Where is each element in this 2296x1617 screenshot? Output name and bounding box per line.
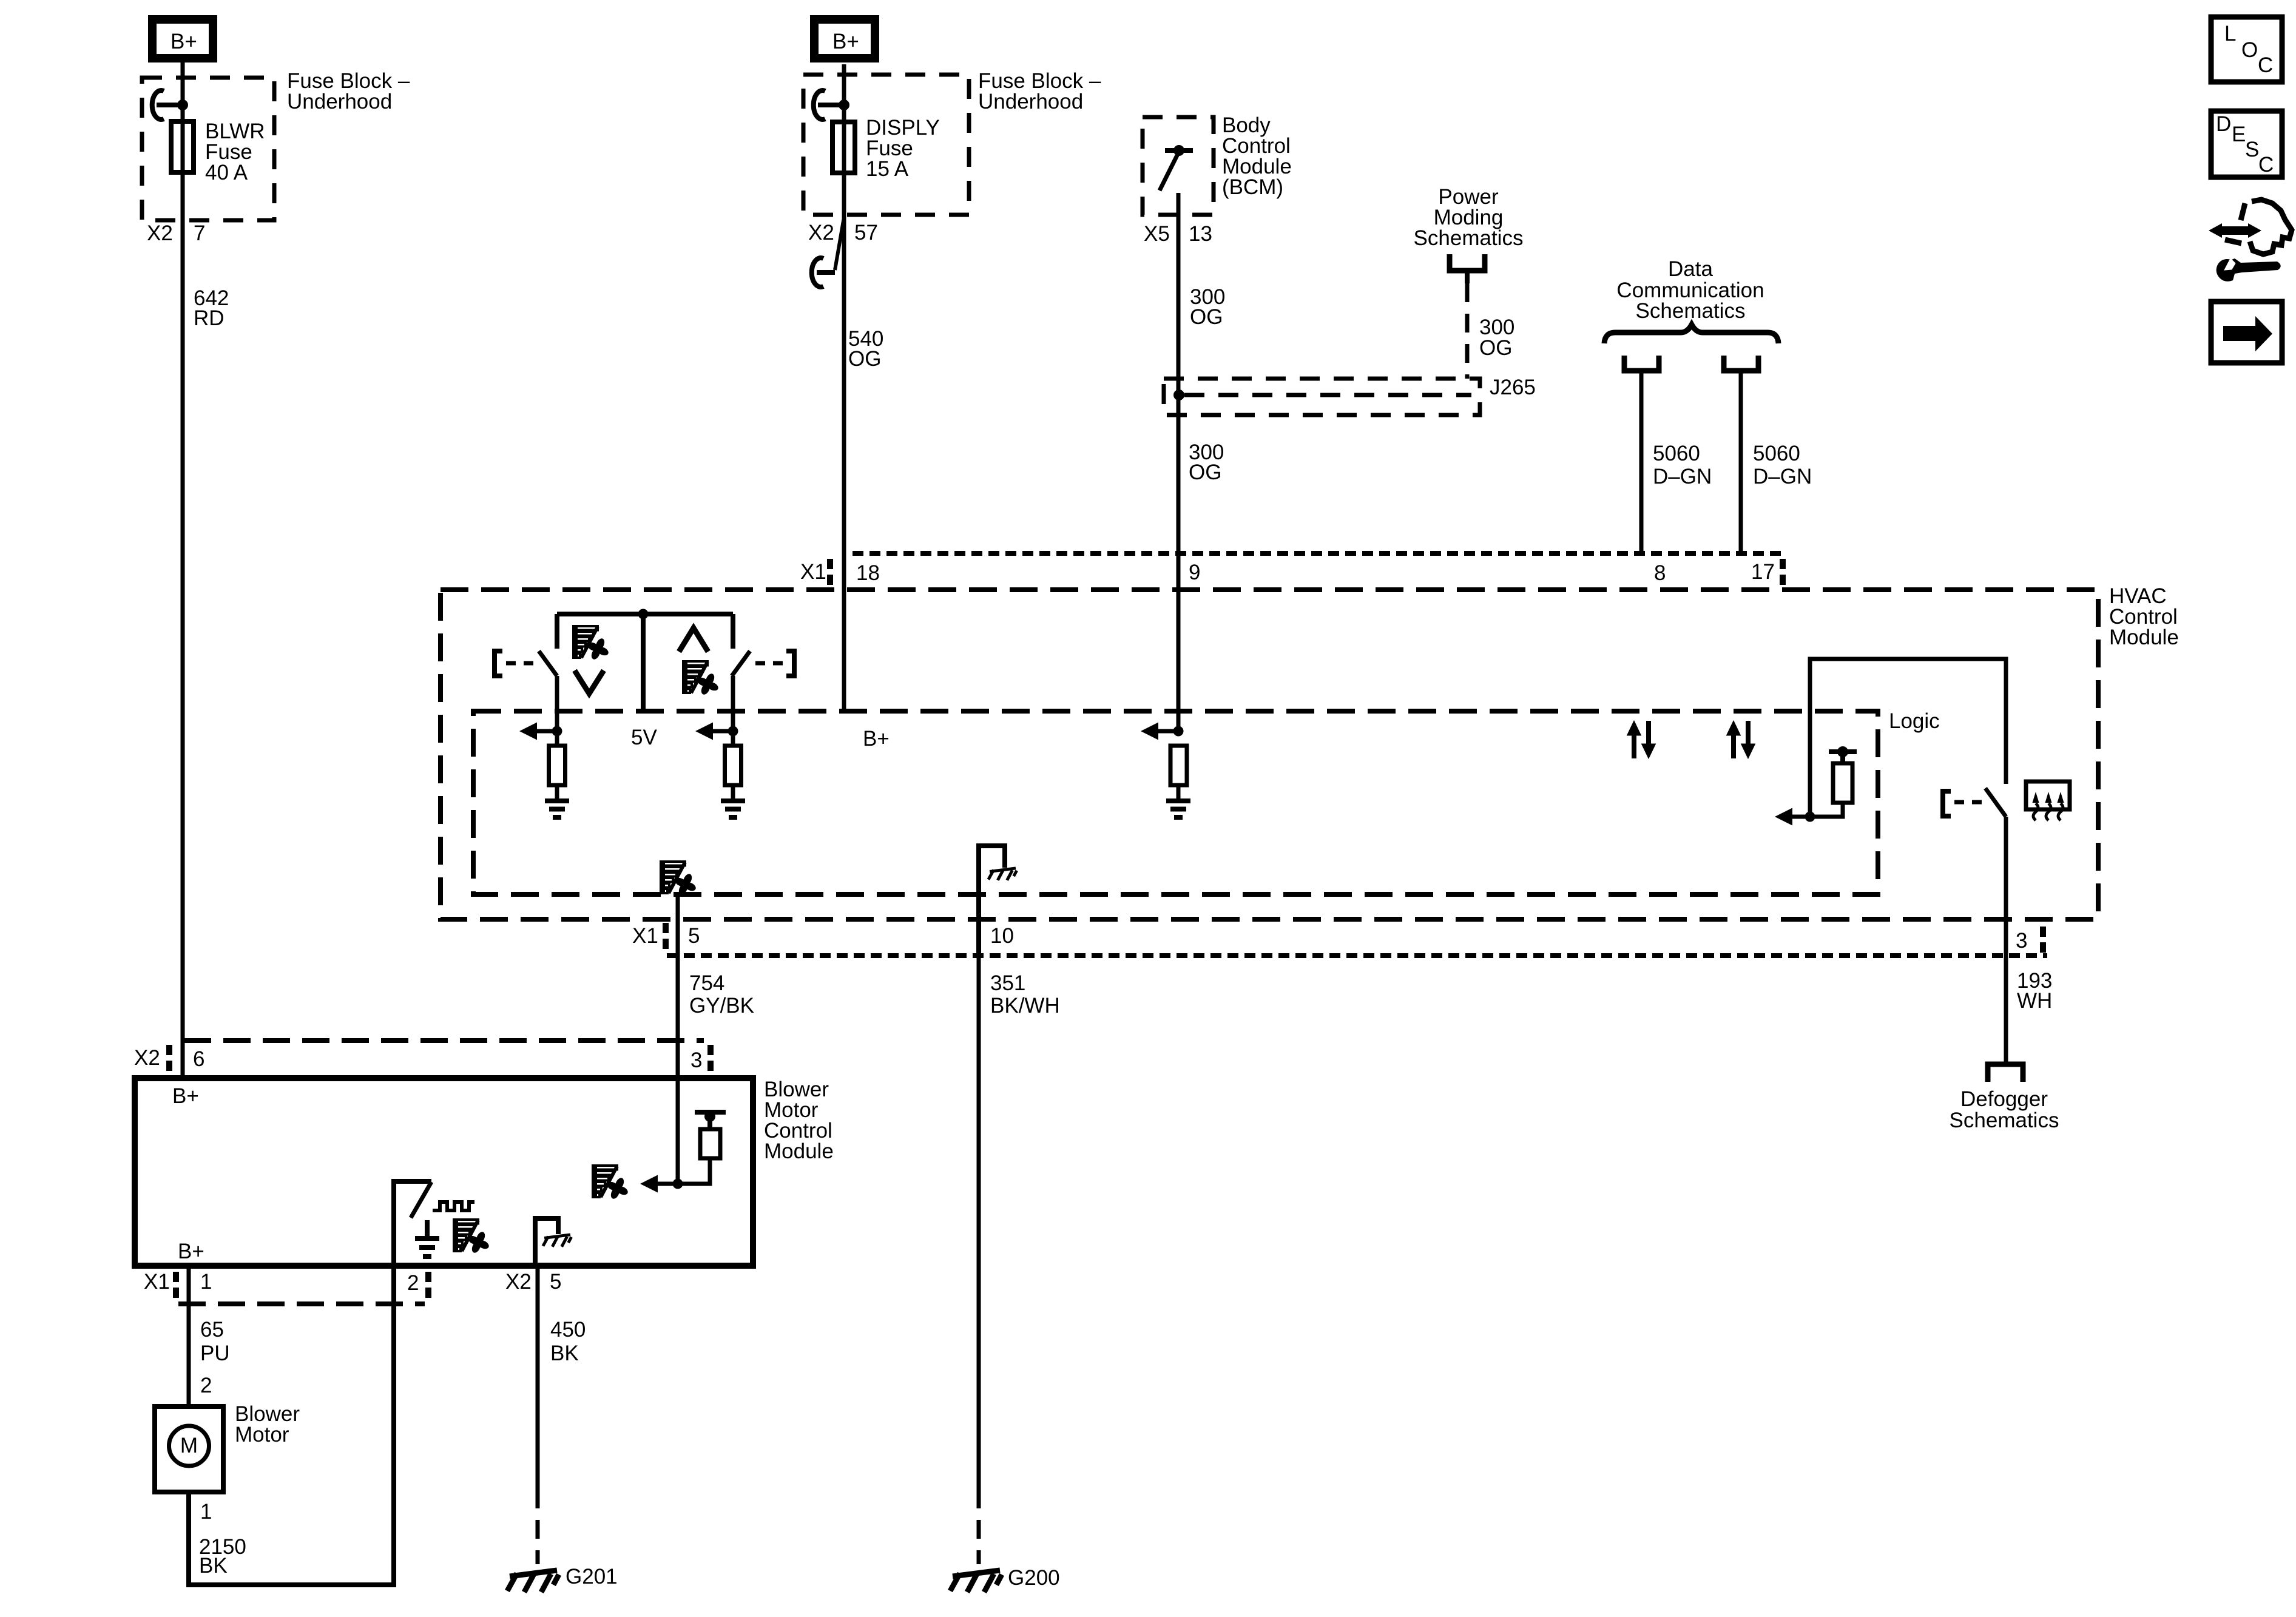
svg-text:1: 1	[200, 1270, 212, 1294]
icon: DESC box	[2211, 111, 2282, 177]
svg-text:5: 5	[550, 1270, 561, 1294]
ground (up switch)	[731, 785, 735, 801]
icon: LOC box	[2211, 17, 2282, 82]
svg-text:6: 6	[193, 1047, 204, 1071]
Blower Motor box	[155, 1406, 223, 1492]
svg-text:BK: BK	[199, 1554, 228, 1578]
svg-text:1: 1	[200, 1500, 212, 1524]
blower output fan icon	[661, 862, 697, 896]
svg-text:X2: X2	[505, 1270, 532, 1294]
connector hook (fuse block 1 feed)	[152, 90, 164, 120]
bracket: serial data link 2	[1724, 356, 1758, 371]
svg-text:5060: 5060	[1653, 442, 1700, 465]
svg-text:40 A: 40 A	[205, 161, 248, 184]
svg-text:65: 65	[200, 1318, 224, 1342]
svg-text:X2: X2	[134, 1046, 160, 1070]
B+ power symbol (DISPLY circuit)	[814, 19, 875, 58]
svg-text:15 A: 15 A	[866, 157, 909, 181]
fan icon (output driver)	[454, 1220, 490, 1254]
resistor (pin 9 pull)	[1170, 746, 1187, 785]
connector X2 dashed row (blower module top)	[184, 1038, 704, 1043]
up/down data arrows pin 17	[1727, 721, 1755, 758]
HVAC Control Module outer dashed box	[441, 590, 2098, 919]
svg-text:M: M	[180, 1434, 198, 1457]
svg-text:X1: X1	[632, 924, 658, 948]
svg-text:WH: WH	[2017, 989, 2052, 1013]
wire: 351 BK/WH to G200	[977, 956, 981, 1490]
svg-text:BK/WH: BK/WH	[990, 994, 1060, 1018]
svg-text:X1: X1	[144, 1270, 170, 1294]
svg-text:Defogger: Defogger	[1960, 1087, 2048, 1111]
svg-text:B+: B+	[178, 1240, 204, 1263]
ground (pin 9 pull)	[1177, 785, 1181, 801]
svg-text:D–GN: D–GN	[1653, 465, 1712, 488]
svg-text:OG: OG	[848, 347, 881, 371]
internal chassis ground pin X2-5	[535, 1218, 558, 1266]
B+ power symbol (BLWR circuit)	[152, 19, 213, 58]
wire: 5060 D-GN to HVAC pin 17	[1739, 371, 1743, 553]
svg-text:RD: RD	[194, 306, 225, 330]
output switch to blower motor	[394, 1181, 431, 1266]
internal ground (output driver)	[425, 1220, 430, 1238]
icon: diagnostic hand/wrench with double arrow	[2225, 200, 2292, 254]
svg-text:(BCM): (BCM)	[1222, 175, 1283, 199]
logic sense resistor (defogger switch)	[1829, 749, 1857, 754]
svg-text:Schematics: Schematics	[1414, 226, 1524, 250]
connector tick X1-1	[173, 1272, 179, 1300]
fuse DISPLY 15A	[832, 122, 855, 173]
arrow output (up switch sense)	[695, 723, 713, 740]
svg-text:Underhood: Underhood	[287, 90, 392, 113]
ground (down switch)	[555, 785, 559, 801]
arrow + node (speed command)	[640, 1175, 658, 1193]
svg-text:PU: PU	[200, 1342, 230, 1365]
splice pack J265 dashed box	[1164, 379, 1480, 415]
connector tick X2-6	[166, 1045, 172, 1073]
defogger switch	[1985, 788, 2006, 817]
connector tick X1-18	[827, 559, 833, 587]
fan speed up switch	[731, 614, 735, 649]
wire: 450 BK to G201	[536, 1266, 540, 1490]
svg-text:18: 18	[856, 561, 880, 585]
svg-text:G201: G201	[566, 1565, 618, 1588]
svg-text:5V: 5V	[631, 726, 657, 749]
fan speed down switch	[555, 614, 559, 649]
resistor (up switch pull)	[725, 746, 741, 785]
wire: 65 PU to blower motor	[187, 1266, 191, 1409]
Logic inner dashed box	[473, 711, 1878, 894]
svg-text:Module: Module	[764, 1139, 834, 1163]
svg-text:Logic: Logic	[1889, 709, 1940, 733]
wire: 540 OG from DISPLY fuse to HVAC control module pin X1-18	[842, 64, 846, 711]
off-page connector: Defogger Schematics	[1988, 1064, 2023, 1082]
fuse BLWR 40A	[171, 121, 194, 172]
brace over data links	[1604, 325, 1778, 343]
motor symbol M	[169, 1426, 209, 1466]
connector hook (fuse block 2 feed)	[814, 90, 825, 120]
connector X1 dotted row (blower module bottom)	[178, 1301, 425, 1306]
svg-text:OG: OG	[1190, 305, 1223, 329]
svg-text:GY/BK: GY/BK	[689, 994, 754, 1018]
wire: fan output to pin X1-5	[676, 894, 680, 1078]
svg-text:X2: X2	[147, 221, 173, 245]
svg-text:5060: 5060	[1753, 442, 1800, 465]
svg-text:9: 9	[1189, 561, 1200, 584]
svg-text:S: S	[2245, 138, 2259, 161]
svg-text:Data: Data	[1668, 257, 1713, 281]
fan icon (speed command)	[593, 1166, 629, 1200]
svg-text:Underhood: Underhood	[978, 90, 1083, 113]
ground G200	[950, 1570, 1002, 1592]
BCM internal switch (output driver)	[1165, 148, 1193, 153]
svg-text:10: 10	[990, 924, 1014, 948]
svg-text:B+: B+	[172, 1084, 199, 1108]
svg-text:D–GN: D–GN	[1753, 465, 1812, 488]
svg-text:BK: BK	[550, 1342, 579, 1365]
svg-text:7: 7	[194, 221, 205, 245]
node: junction at fuse block 1 feed	[177, 100, 188, 110]
svg-text:C: C	[2258, 53, 2273, 77]
svg-text:C: C	[2258, 153, 2274, 177]
svg-text:8: 8	[1654, 561, 1666, 585]
svg-text:B+: B+	[863, 727, 890, 751]
Fuse Block - Underhood box 2	[803, 75, 969, 215]
resistor (down switch pull)	[549, 746, 566, 785]
svg-text:OG: OG	[1189, 461, 1221, 484]
svg-text:351: 351	[990, 971, 1025, 995]
svg-text:B+: B+	[171, 30, 197, 53]
svg-text:57: 57	[854, 221, 878, 245]
ground G201	[507, 1570, 559, 1592]
wire from down switch	[555, 676, 559, 746]
svg-text:Motor: Motor	[235, 1423, 289, 1447]
fan speed up icon	[679, 628, 708, 652]
svg-text:L: L	[2224, 22, 2236, 46]
wire from up switch	[731, 676, 735, 746]
svg-text:2: 2	[407, 1271, 419, 1295]
internal ground pin 10	[979, 846, 1005, 956]
svg-text:OG: OG	[1479, 336, 1512, 360]
arrow output (defogger request)	[1775, 808, 1792, 826]
HVAC bottom dotted connector row	[667, 953, 2047, 958]
fan speed down icon	[573, 626, 610, 661]
wire: 300 OG from BCM X5-13 to HVAC pin 9	[1177, 193, 1181, 731]
wire: 2150 BK motor return to pin X1-2	[189, 1266, 394, 1585]
svg-text:X1: X1	[800, 560, 826, 584]
Blower Motor Control Module box	[135, 1078, 753, 1266]
svg-text:5: 5	[688, 924, 700, 948]
svg-text:B+: B+	[832, 30, 859, 53]
svg-text:Module: Module	[2109, 626, 2179, 649]
arrow output (down switch sense)	[519, 723, 537, 740]
svg-text:X5: X5	[1144, 222, 1170, 246]
Body Control Module (BCM) dashed box	[1143, 117, 1214, 215]
PWM signal icon	[433, 1202, 474, 1210]
svg-text:D: D	[2216, 112, 2231, 136]
wire: defogger switch feed	[1810, 659, 2006, 817]
wire: pin 3 control input inside module	[676, 1078, 680, 1184]
control sense resistor	[695, 1110, 726, 1115]
arrow input (pin 9 sense)	[1141, 723, 1158, 740]
svg-text:17: 17	[1751, 560, 1775, 584]
svg-text:E: E	[2232, 123, 2246, 146]
Fuse Block - Underhood box 1	[142, 78, 274, 220]
svg-text:2: 2	[200, 1374, 212, 1397]
svg-text:3: 3	[2016, 929, 2027, 953]
svg-text:3: 3	[690, 1048, 702, 1072]
bracket: serial data link 1	[1624, 356, 1659, 371]
connector tick X1-5	[663, 923, 669, 951]
defogger icon	[2026, 781, 2070, 809]
5V rail	[557, 612, 733, 616]
svg-text:G200: G200	[1008, 1566, 1060, 1590]
connector symbol in line X2-57	[835, 217, 844, 270]
svg-text:450: 450	[550, 1318, 586, 1342]
up/down data arrows pin 8	[1627, 721, 1656, 758]
svg-text:J265: J265	[1490, 376, 1536, 399]
wire: 193 WH defogger output	[2004, 817, 2008, 1063]
svg-text:Schematics: Schematics	[1636, 299, 1746, 323]
HVAC connector X1 dotted row (top)	[853, 551, 1781, 556]
svg-text:O: O	[2241, 38, 2258, 62]
svg-text:13: 13	[1189, 222, 1212, 246]
wire: dashed 300 OG drop to J265	[1465, 283, 1470, 379]
node: splice J265 on 300 OG	[1173, 390, 1184, 400]
icon: arrow box	[2211, 302, 2282, 363]
svg-text:X2: X2	[808, 221, 834, 245]
wire: battery feed 642 RD from B+ to blower motor control module	[181, 62, 185, 1078]
wire: 5060 D-GN to HVAC pin 8	[1639, 371, 1644, 553]
svg-text:Schematics: Schematics	[1950, 1109, 2059, 1132]
node: junction at fuse block 2 feed	[839, 100, 849, 110]
svg-text:754: 754	[689, 971, 724, 995]
